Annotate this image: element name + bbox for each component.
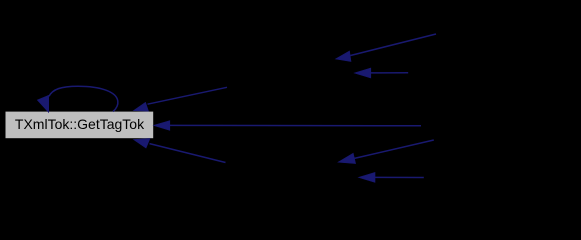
svg-text:TXmlTok::GetTagTok: TXmlTok::GetTagTok <box>15 116 145 132</box>
self-loop arrowhead <box>37 95 48 112</box>
node TXmlTok::GetTagTok <box>6 112 154 139</box>
caller edge 3 (to node bottom-right) <box>134 138 226 162</box>
caller edge 1 (to node top-right) <box>134 87 228 111</box>
caller edge D (lower right horizontal) <box>359 172 424 182</box>
caller edge 2 (long horizontal to node right) <box>154 121 422 131</box>
caller edge B (upper right horizontal) <box>354 68 408 78</box>
self-loop edge <box>49 86 118 111</box>
caller edge A (upper right diagonal) <box>336 34 437 62</box>
caller edge C (lower right diagonal) <box>338 140 434 164</box>
